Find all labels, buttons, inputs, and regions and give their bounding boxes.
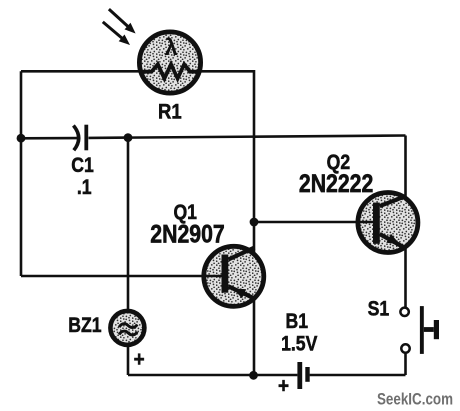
svg-text:2N2222: 2N2222 [299,169,373,197]
svg-text:+: + [134,348,145,371]
svg-text:SeekIC.com: SeekIC.com [377,390,453,409]
svg-text:1.5V: 1.5V [281,332,317,356]
svg-text:.1: .1 [77,176,92,200]
svg-text:BZ1: BZ1 [68,314,101,338]
svg-text:C1: C1 [71,154,94,178]
svg-text:2N2907: 2N2907 [150,220,224,248]
svg-text:+: + [278,375,289,398]
svg-text:B1: B1 [286,309,309,333]
svg-text:S1: S1 [368,297,390,321]
svg-text:λ: λ [165,34,178,60]
svg-text:R1: R1 [158,100,182,123]
